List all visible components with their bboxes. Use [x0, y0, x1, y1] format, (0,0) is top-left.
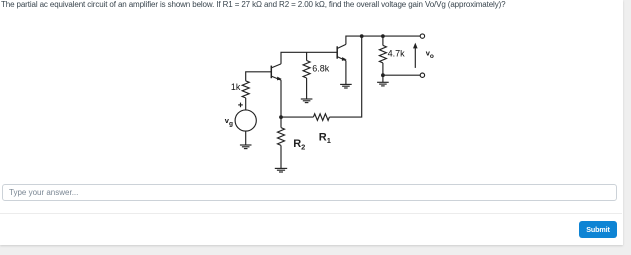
output terminal bottom (open circle): [420, 73, 424, 77]
resistor R1 (horizontal): [313, 114, 329, 121]
resistor 6.8k: [306, 52, 308, 60]
svg-text:6.8k: 6.8k: [312, 64, 330, 74]
wire R1 to feedback riser up to top rail: [329, 36, 361, 117]
ground below 4.7k: [377, 82, 389, 86]
wire R2 to ground: [280, 145, 282, 168]
svg-text:4.7k: 4.7k: [388, 49, 406, 59]
ground below 6.8k: [301, 99, 313, 103]
wire Q2 emitter to ground: [345, 61, 347, 85]
label + polarity: [238, 103, 243, 108]
ground below Q2 emitter: [340, 84, 352, 88]
resistor 1k: [242, 81, 249, 98]
junction dot top rail / 4.7k: [381, 34, 385, 38]
ground below R2: [275, 168, 287, 172]
resistor R2: [280, 117, 282, 128]
wire 4.7k bottom to lower output terminal: [383, 74, 420, 76]
wire Q2 collector to top rail and across to output terminal: [346, 36, 420, 44]
wire vg-to-1k vertical + base wire to Q1: [246, 72, 272, 81]
svg-text:1k: 1k: [231, 82, 241, 92]
resistor 4.7k: [382, 36, 384, 45]
arrow vo: [414, 47, 416, 68]
output terminal top (open circle): [420, 34, 424, 38]
junction dot 4.7k bottom: [381, 73, 385, 77]
wire 1k-to-vg: [245, 98, 247, 110]
wire 4.7k to ground: [382, 75, 384, 82]
wire Q1 collector to rail: [281, 52, 337, 64]
junction dot node (emitter/R1/R2): [279, 115, 283, 119]
wire node to R1: [281, 116, 313, 118]
wire Q1 emitter down to node: [280, 80, 282, 117]
svg-text:vo: vo: [426, 48, 434, 60]
svg-text:R1: R1: [319, 131, 331, 145]
wire 6.8k-to-ground: [306, 78, 308, 99]
svg-text:R2: R2: [293, 138, 305, 152]
wire vg-to-ground: [245, 131, 247, 145]
transistor Q1 (left npn): [271, 64, 282, 81]
source vg (ac source circle): [235, 110, 256, 131]
transistor Q2 (right npn): [337, 44, 347, 61]
svg-text:vg: vg: [225, 116, 233, 128]
ground below vg: [240, 145, 252, 149]
junction dot top rail / feedback: [360, 34, 364, 38]
